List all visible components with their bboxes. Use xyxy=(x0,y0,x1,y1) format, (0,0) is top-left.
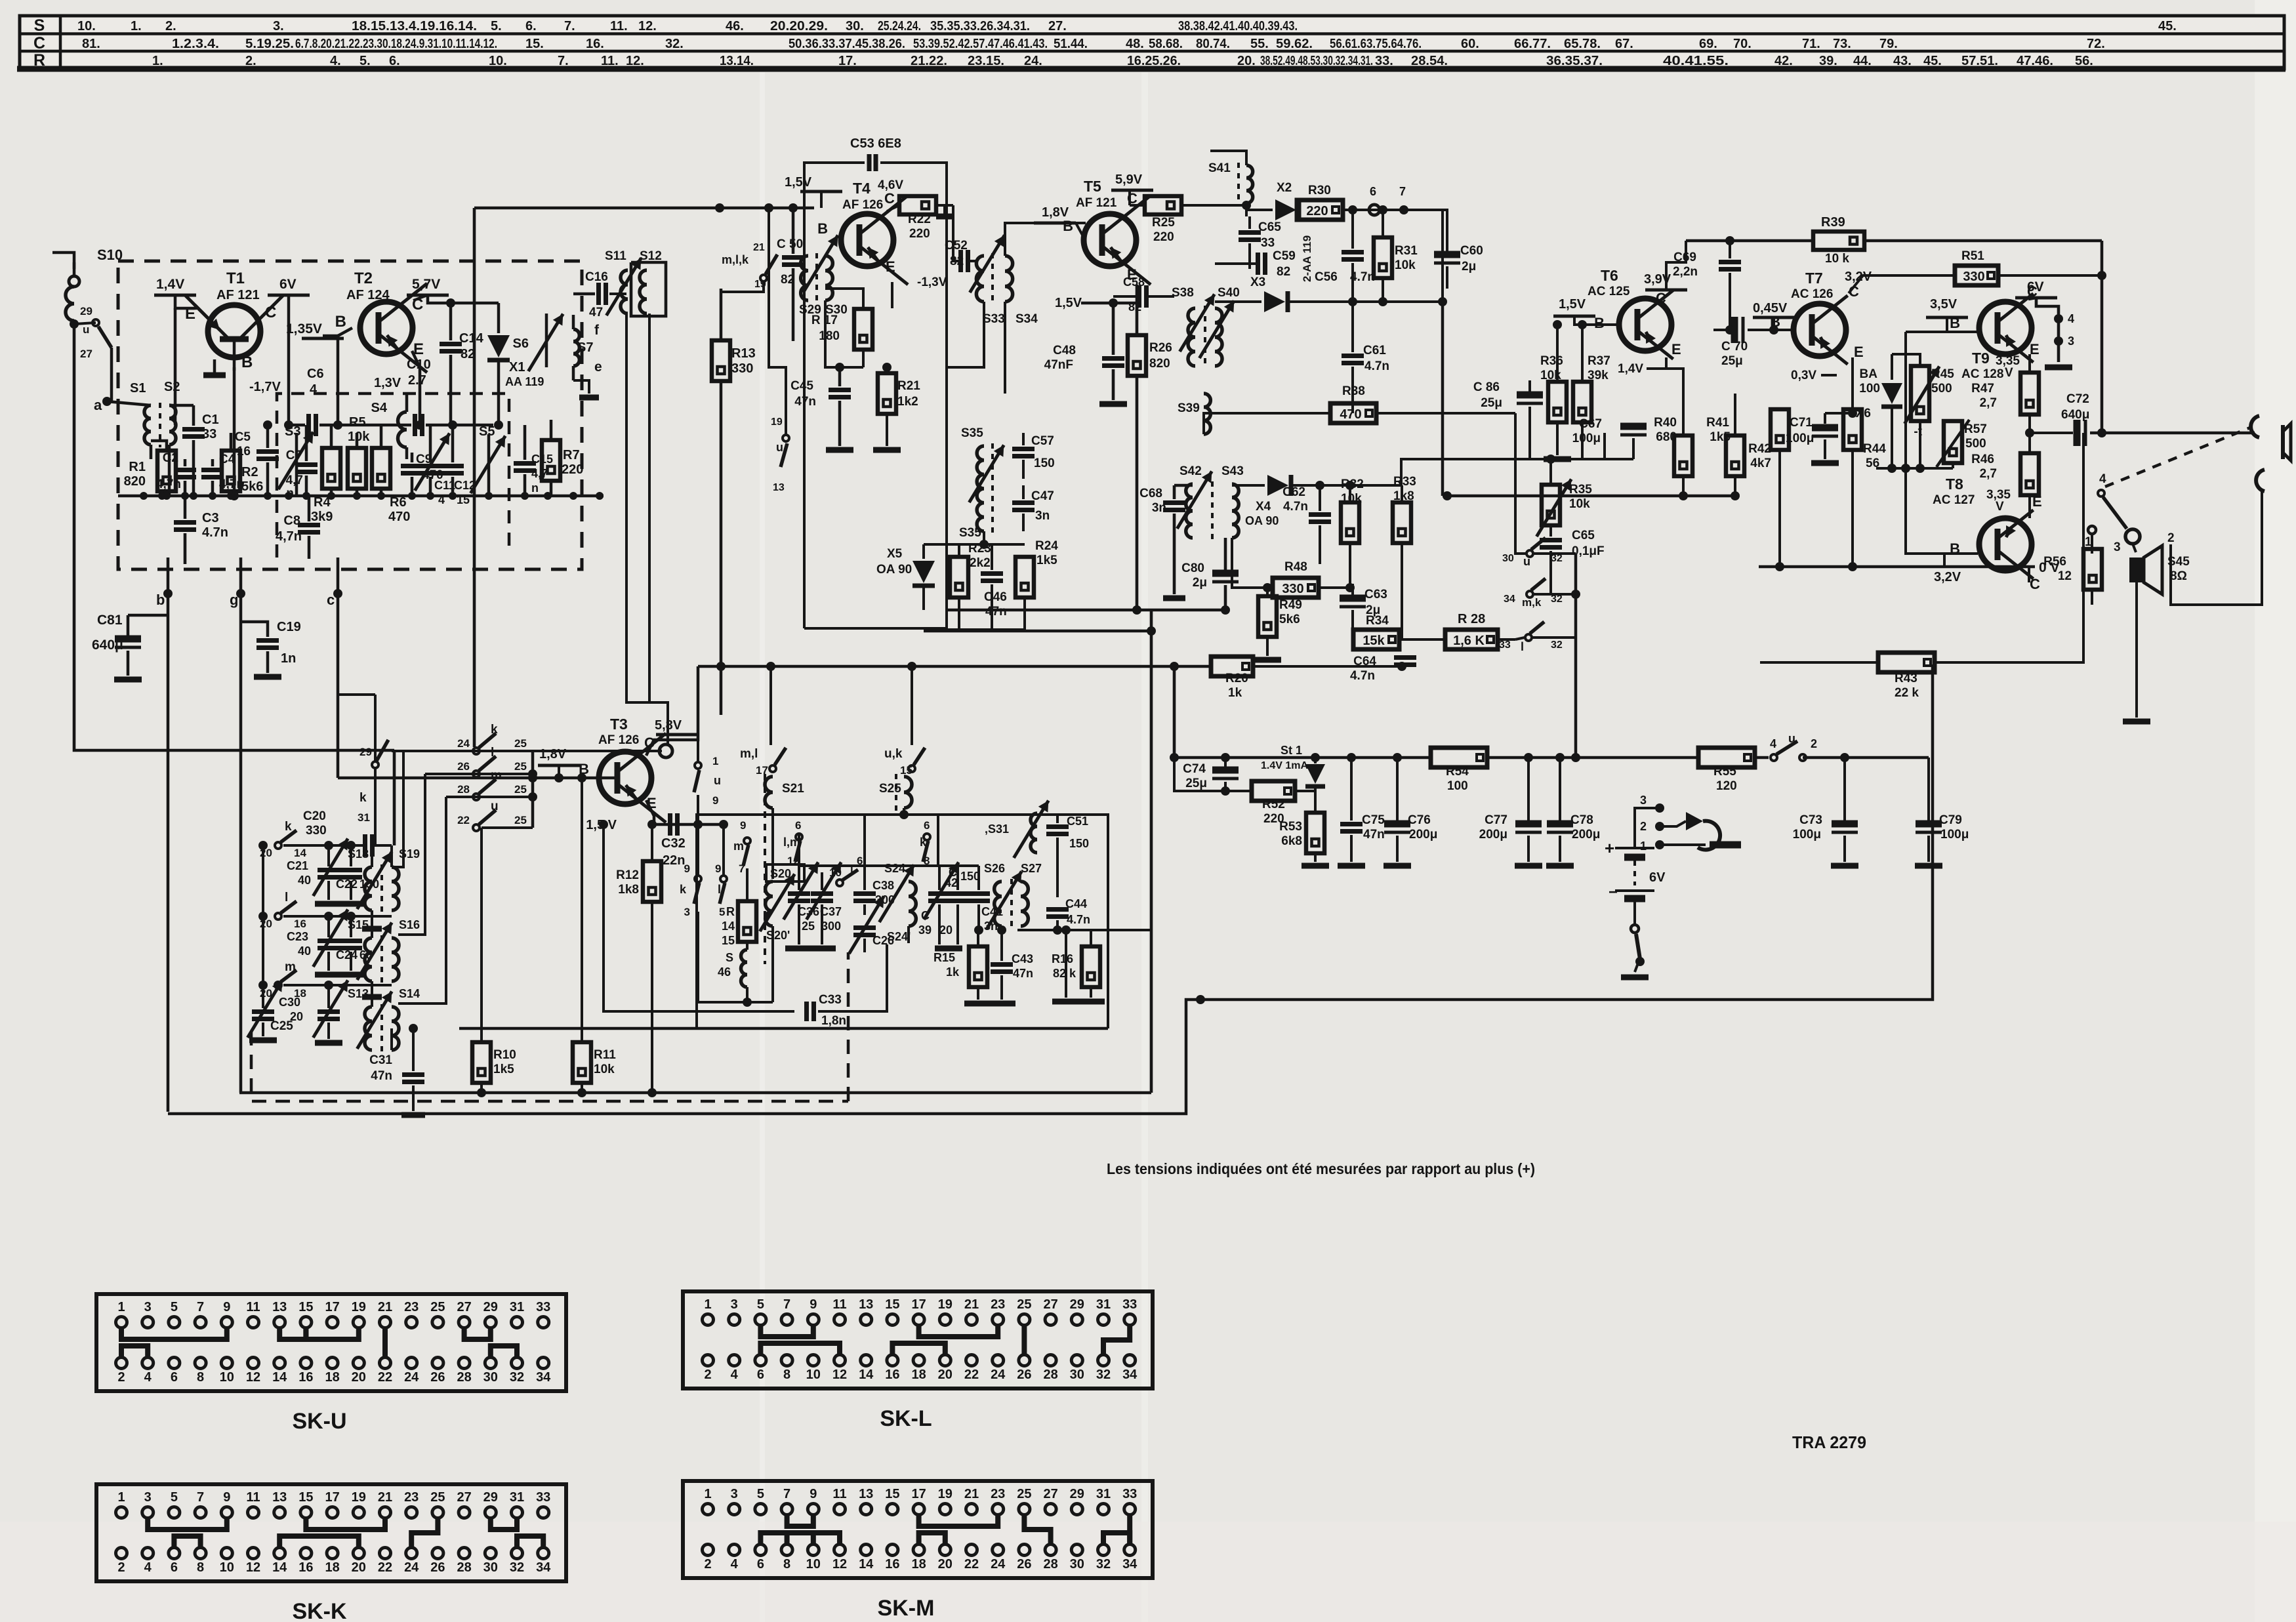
svg-text:S3: S3 xyxy=(285,424,300,439)
svg-text:k: k xyxy=(285,820,292,834)
svg-text:24: 24 xyxy=(457,737,470,750)
coil S33 xyxy=(976,256,984,302)
svg-text:47: 47 xyxy=(589,306,603,319)
svg-text:29: 29 xyxy=(483,1300,498,1314)
svg-text:6: 6 xyxy=(757,1557,764,1571)
svg-text:St 1: St 1 xyxy=(1281,744,1302,757)
svg-text:X1: X1 xyxy=(509,360,525,375)
svg-text:R52: R52 xyxy=(1262,798,1285,811)
svg-text:R4: R4 xyxy=(314,495,331,510)
resistor R30 xyxy=(1297,200,1343,220)
svg-text:B: B xyxy=(1770,314,1780,330)
svg-text:46: 46 xyxy=(718,965,731,979)
resistor R2 xyxy=(222,451,240,491)
svg-text:79.: 79. xyxy=(1879,37,1898,51)
svg-text:8: 8 xyxy=(197,1560,204,1575)
trimmer C37 xyxy=(811,891,833,896)
svg-text:21.22.: 21.22. xyxy=(911,54,947,68)
svg-text:17: 17 xyxy=(911,1487,926,1501)
svg-text:13: 13 xyxy=(272,1300,287,1314)
resistor R32 xyxy=(1341,502,1359,543)
svg-text:39k: 39k xyxy=(1588,369,1609,382)
svg-text:18: 18 xyxy=(325,1370,339,1385)
svg-text:-1,3V: -1,3V xyxy=(917,275,947,289)
svg-text:R: R xyxy=(33,51,45,70)
svg-text:5: 5 xyxy=(719,906,725,918)
svg-text:1.: 1. xyxy=(131,19,142,33)
svg-text:820: 820 xyxy=(1149,357,1170,371)
svg-text:S21: S21 xyxy=(782,782,804,796)
svg-text:5: 5 xyxy=(171,1300,178,1314)
svg-text:R2: R2 xyxy=(241,465,258,479)
svg-text:R33: R33 xyxy=(1393,475,1416,489)
svg-text:12: 12 xyxy=(832,1368,847,1382)
coil S1 xyxy=(144,405,151,445)
svg-text:4,7: 4,7 xyxy=(286,474,303,487)
svg-text:17: 17 xyxy=(911,1297,926,1312)
capacitor C7 xyxy=(295,462,318,467)
wire xyxy=(474,207,814,210)
svg-text:330: 330 xyxy=(1963,270,1984,284)
svg-text:C31: C31 xyxy=(369,1053,392,1067)
svg-text:S43: S43 xyxy=(1221,464,1244,478)
svg-text:R7: R7 xyxy=(563,448,580,462)
svg-text:10: 10 xyxy=(806,1368,821,1382)
wire xyxy=(174,308,177,425)
resistor R40 xyxy=(1674,436,1692,476)
svg-text:36.35.37.: 36.35.37. xyxy=(1546,54,1603,68)
resistor R37 xyxy=(1573,382,1591,422)
svg-text:20: 20 xyxy=(939,923,953,937)
svg-text:9: 9 xyxy=(810,1487,817,1501)
resistor R1 xyxy=(157,451,176,491)
svg-text:T5: T5 xyxy=(1084,178,1101,195)
svg-text:S35: S35 xyxy=(959,526,981,540)
svg-text:X2: X2 xyxy=(1277,181,1292,195)
svg-text:3: 3 xyxy=(731,1297,738,1312)
svg-text:m,l,k: m,l,k xyxy=(722,253,749,266)
svg-text:27.: 27. xyxy=(1048,19,1067,33)
svg-text:S25: S25 xyxy=(879,782,901,796)
svg-text:16: 16 xyxy=(237,445,251,458)
svg-text:SK-U: SK-U xyxy=(292,1409,346,1434)
svg-text:C 86: C 86 xyxy=(1473,380,1500,394)
charger jack xyxy=(1635,808,1660,848)
svg-text:30: 30 xyxy=(483,1560,498,1575)
svg-text:C: C xyxy=(2030,576,2040,592)
svg-text:AC 128: AC 128 xyxy=(1961,367,2003,381)
capacitor C56 xyxy=(1342,250,1364,254)
terminal 6 7 xyxy=(1369,205,1380,215)
coil S2 xyxy=(169,405,176,445)
base divider xyxy=(1604,325,1605,365)
resistor R7 xyxy=(542,440,560,481)
svg-text:4.: 4. xyxy=(330,54,341,68)
svg-text:16: 16 xyxy=(294,918,306,930)
svg-text:9: 9 xyxy=(712,794,718,807)
svg-text:1,4V: 1,4V xyxy=(156,277,184,292)
coil S42 xyxy=(1186,484,1193,538)
capacitor C1 xyxy=(182,427,205,432)
svg-text:58.68.: 58.68. xyxy=(1149,37,1183,51)
svg-text:20: 20 xyxy=(352,1370,366,1385)
svg-text:0,1μF: 0,1μF xyxy=(1572,544,1605,558)
svg-text:5k6: 5k6 xyxy=(241,479,263,494)
svg-text:1: 1 xyxy=(704,1297,711,1312)
svg-text:T7: T7 xyxy=(1805,270,1823,287)
svg-text:T8: T8 xyxy=(1946,476,1963,493)
transformer S21 xyxy=(765,777,773,808)
svg-text:11.: 11. xyxy=(610,19,628,33)
svg-text:2-AA 119: 2-AA 119 xyxy=(1301,235,1313,282)
svg-text:C1: C1 xyxy=(202,413,219,427)
wire xyxy=(1574,554,1578,758)
svg-text:330: 330 xyxy=(1282,582,1303,596)
svg-text:1,35V: 1,35V xyxy=(286,321,322,336)
svg-text:C5: C5 xyxy=(235,430,251,444)
svg-text:1,5V: 1,5V xyxy=(1559,297,1586,312)
svg-text:150: 150 xyxy=(960,870,980,883)
capacitor C52 xyxy=(958,250,963,272)
svg-text:C58: C58 xyxy=(1123,275,1145,289)
svg-text:3: 3 xyxy=(731,1487,738,1501)
svg-text:4: 4 xyxy=(144,1560,152,1575)
svg-text:4,6V: 4,6V xyxy=(878,178,903,192)
resistor R15 xyxy=(969,946,987,987)
svg-text:R15: R15 xyxy=(933,951,955,964)
svg-text:5.: 5. xyxy=(359,54,371,68)
svg-text:4: 4 xyxy=(731,1557,739,1571)
coil S39 xyxy=(1204,394,1210,434)
svg-text:10 k: 10 k xyxy=(1825,252,1849,266)
svg-text:C48: C48 xyxy=(1053,344,1076,357)
svg-text:TRA 2279: TRA 2279 xyxy=(1792,1432,1866,1452)
svg-text:25: 25 xyxy=(430,1300,445,1314)
svg-text:3,2V: 3,2V xyxy=(1934,570,1961,584)
svg-text:28.54.: 28.54. xyxy=(1411,54,1448,68)
svg-text:3.: 3. xyxy=(273,19,284,33)
svg-text:15: 15 xyxy=(457,493,470,506)
svg-text:S1: S1 xyxy=(130,381,146,395)
transistor T5 xyxy=(1084,214,1136,266)
svg-text:28: 28 xyxy=(457,1370,471,1385)
svg-text:l: l xyxy=(1521,640,1524,653)
svg-text:C47: C47 xyxy=(1031,489,1054,503)
svg-text:2: 2 xyxy=(117,1370,125,1385)
coil S10 xyxy=(66,287,74,321)
svg-text:C20: C20 xyxy=(303,809,326,823)
svg-text:S40: S40 xyxy=(1218,286,1240,300)
svg-text:82: 82 xyxy=(1277,265,1290,279)
svg-text:60.: 60. xyxy=(1461,37,1479,51)
svg-text:R24: R24 xyxy=(1035,539,1058,553)
svg-text:17: 17 xyxy=(325,1490,339,1505)
svg-text:10: 10 xyxy=(806,1557,821,1571)
svg-text:2: 2 xyxy=(704,1368,711,1382)
svg-text:1.2.3.4.: 1.2.3.4. xyxy=(172,37,219,51)
resistor R16 xyxy=(1082,946,1100,987)
svg-text:10k: 10k xyxy=(1395,258,1416,272)
capacitor C75 xyxy=(1340,822,1363,826)
svg-text:10: 10 xyxy=(829,866,842,879)
resistor R28 xyxy=(1445,630,1498,649)
transformer S25 xyxy=(904,777,912,808)
potentiometer R35 xyxy=(1542,485,1560,525)
svg-text:30.: 30. xyxy=(846,19,864,33)
svg-text:35.35.33.26.34.31.: 35.35.33.26.34.31. xyxy=(930,19,1030,33)
svg-text:C61: C61 xyxy=(1363,344,1386,357)
svg-text:S45: S45 xyxy=(2167,555,2190,569)
resistor R13 xyxy=(712,340,730,381)
inner dashed box xyxy=(277,394,509,558)
svg-text:67.: 67. xyxy=(1615,37,1633,51)
svg-text:470: 470 xyxy=(1340,407,1361,422)
svg-text:6: 6 xyxy=(1370,185,1376,198)
capacitor C79 xyxy=(1916,821,1942,828)
svg-text:15k: 15k xyxy=(1363,634,1385,648)
svg-text:10k: 10k xyxy=(1569,497,1590,511)
svg-text:R37: R37 xyxy=(1588,354,1610,368)
capacitor C45 xyxy=(829,388,851,392)
svg-text:S24': S24' xyxy=(887,930,911,943)
capacitor C65b xyxy=(1540,538,1562,542)
transistor T8 xyxy=(1979,518,2032,571)
svg-text:C: C xyxy=(921,909,930,922)
svg-text:C: C xyxy=(1656,290,1666,306)
capacitor C71 xyxy=(1812,424,1838,432)
svg-text:22 k: 22 k xyxy=(1895,686,1919,700)
svg-text:20.20.29.: 20.20.29. xyxy=(770,19,828,33)
svg-text:34: 34 xyxy=(1122,1557,1138,1571)
capacitor C66b xyxy=(1517,392,1543,399)
svg-text:u: u xyxy=(714,774,721,787)
svg-text:C32: C32 xyxy=(661,836,686,851)
svg-text:R56: R56 xyxy=(2043,555,2066,569)
svg-text:19: 19 xyxy=(352,1300,366,1314)
svg-text:16.25.26.: 16.25.26. xyxy=(1127,54,1181,68)
wire supply xyxy=(1173,666,1176,758)
svg-text:25: 25 xyxy=(1017,1297,1031,1312)
coil S11 xyxy=(621,270,628,314)
svg-text:B: B xyxy=(1950,315,1960,331)
svg-text:73.: 73. xyxy=(1833,37,1851,51)
svg-text:15: 15 xyxy=(885,1297,899,1312)
svg-text:V: V xyxy=(2005,366,2013,380)
resistor R10 xyxy=(472,1042,491,1083)
svg-text:S38: S38 xyxy=(1172,286,1194,300)
svg-text:1: 1 xyxy=(704,1487,711,1501)
svg-text:16: 16 xyxy=(298,1370,313,1385)
svg-text:29: 29 xyxy=(80,305,92,317)
svg-text:R42: R42 xyxy=(1748,442,1771,456)
svg-text:R21: R21 xyxy=(897,379,920,393)
diode X6 BA100 xyxy=(1881,383,1902,404)
capacitor C64 xyxy=(1394,655,1416,660)
svg-text:13.14.: 13.14. xyxy=(720,54,754,68)
capacitor C4 xyxy=(201,468,224,472)
connector block SK-K xyxy=(96,1484,566,1622)
resistor R45 xyxy=(1911,366,1929,421)
svg-text:1k5: 1k5 xyxy=(1710,430,1731,444)
svg-text:51.44.: 51.44. xyxy=(1054,37,1088,51)
svg-text:470: 470 xyxy=(388,510,410,524)
svg-text:22: 22 xyxy=(964,1368,979,1382)
svg-text:34: 34 xyxy=(536,1560,551,1575)
svg-text:C 70: C 70 xyxy=(1721,340,1748,354)
svg-text:500: 500 xyxy=(1931,382,1952,395)
svg-text:39.: 39. xyxy=(1819,54,1837,68)
svg-text:S5: S5 xyxy=(479,424,495,439)
svg-text:47n: 47n xyxy=(1363,828,1385,841)
svg-text:S18: S18 xyxy=(348,847,369,861)
svg-text:220: 220 xyxy=(1306,204,1328,218)
svg-text:150: 150 xyxy=(1034,456,1055,470)
resistor R48 xyxy=(1273,578,1319,598)
transistor T1 xyxy=(208,305,260,357)
capacitor C2 xyxy=(174,468,196,472)
svg-text:OA 90: OA 90 xyxy=(1245,514,1279,527)
node b xyxy=(167,558,170,1112)
capacitor C6 xyxy=(306,414,311,436)
svg-text:7: 7 xyxy=(197,1300,204,1314)
svg-text:R40: R40 xyxy=(1654,416,1677,430)
svg-text:S20': S20' xyxy=(766,929,790,942)
feedback line C33 xyxy=(604,824,794,1011)
svg-text:220: 220 xyxy=(1153,230,1174,244)
svg-text:5,9V: 5,9V xyxy=(1115,172,1143,187)
transistor T3 xyxy=(599,752,651,804)
svg-text:2μ: 2μ xyxy=(1462,260,1476,274)
capacitor C8 xyxy=(298,523,320,527)
svg-text:R 28: R 28 xyxy=(1458,612,1485,626)
svg-text:330: 330 xyxy=(731,361,753,376)
svg-text:g: g xyxy=(230,592,238,608)
svg-text:25μ: 25μ xyxy=(1185,777,1207,790)
svg-text:500: 500 xyxy=(1965,437,1986,451)
svg-text:R51: R51 xyxy=(1961,249,1984,263)
svg-text:10k: 10k xyxy=(594,1063,615,1076)
svg-text:R10: R10 xyxy=(493,1048,516,1062)
svg-text:R1: R1 xyxy=(129,460,146,474)
svg-text:25: 25 xyxy=(514,737,527,750)
parts index table xyxy=(17,16,2286,70)
wire xyxy=(1150,610,1153,1093)
svg-text:33: 33 xyxy=(1261,236,1275,250)
svg-text:14: 14 xyxy=(272,1560,287,1575)
svg-text:R12: R12 xyxy=(616,868,639,882)
svg-text:C75: C75 xyxy=(1362,813,1385,827)
svg-text:C44: C44 xyxy=(1065,897,1087,910)
AGC line xyxy=(1443,302,1515,413)
svg-text:k: k xyxy=(359,791,367,805)
svg-text:29: 29 xyxy=(1070,1487,1084,1501)
svg-text:R5: R5 xyxy=(349,415,366,430)
resistor R24 xyxy=(1015,557,1034,598)
svg-text:C69: C69 xyxy=(1673,251,1696,264)
svg-text:2: 2 xyxy=(2167,531,2175,545)
capacitor C31 xyxy=(402,1072,424,1077)
capacitor C42 xyxy=(947,891,969,896)
svg-text:C46: C46 xyxy=(984,590,1007,604)
svg-text:22: 22 xyxy=(457,814,470,826)
svg-text:S11: S11 xyxy=(605,249,626,263)
resistor R4 xyxy=(322,448,340,489)
svg-text:45.: 45. xyxy=(1923,54,1942,68)
svg-text:32: 32 xyxy=(1096,1368,1111,1382)
svg-text:C8: C8 xyxy=(283,514,300,528)
svg-text:23: 23 xyxy=(404,1300,419,1314)
svg-text:34: 34 xyxy=(1504,594,1515,605)
svg-text:20.: 20. xyxy=(1237,54,1256,68)
svg-text:C59: C59 xyxy=(1273,249,1296,263)
resistor R33 xyxy=(1393,502,1411,543)
capacitor C73 xyxy=(1832,821,1858,828)
svg-text:2μ: 2μ xyxy=(1193,576,1207,590)
supply line xyxy=(698,665,1211,668)
svg-text:AA 119: AA 119 xyxy=(505,375,544,388)
svg-text:12: 12 xyxy=(832,1557,847,1571)
svg-text:C: C xyxy=(33,34,45,52)
resistor R41 xyxy=(1726,436,1744,476)
svg-text:1,8V: 1,8V xyxy=(539,747,567,761)
svg-text:S35: S35 xyxy=(961,426,983,440)
svg-text:C30: C30 xyxy=(279,996,300,1009)
svg-text:12: 12 xyxy=(246,1560,260,1575)
resistor R34 xyxy=(1353,630,1399,649)
svg-text:17: 17 xyxy=(325,1300,339,1314)
svg-text:69.: 69. xyxy=(1699,37,1717,51)
coil S30 xyxy=(825,256,832,300)
coil S34 xyxy=(1005,256,1013,302)
capacitor C19 xyxy=(256,638,279,643)
svg-text:C78: C78 xyxy=(1570,813,1593,827)
connector block SK-U xyxy=(96,1294,566,1434)
svg-text:24.: 24. xyxy=(1024,54,1042,68)
svg-text:AC 126: AC 126 xyxy=(1791,287,1833,301)
svg-text:4.7n: 4.7n xyxy=(1350,669,1375,683)
svg-text:31: 31 xyxy=(1096,1487,1111,1501)
svg-text:C56: C56 xyxy=(1315,270,1338,284)
svg-text:C71: C71 xyxy=(1790,416,1813,430)
svg-text:55.: 55. xyxy=(1250,37,1269,51)
svg-text:1,6 K: 1,6 K xyxy=(1453,634,1485,648)
svg-text:C: C xyxy=(265,304,276,321)
0V line xyxy=(1759,565,2035,569)
svg-text:33: 33 xyxy=(536,1300,550,1314)
svg-text:23.15.: 23.15. xyxy=(968,54,1004,68)
capacitor C62 xyxy=(1309,512,1331,517)
svg-text:C6: C6 xyxy=(307,367,324,381)
svg-text:33: 33 xyxy=(202,427,216,441)
svg-text:8: 8 xyxy=(197,1370,204,1385)
svg-text:1,3V: 1,3V xyxy=(374,376,401,390)
svg-text:25μ: 25μ xyxy=(1481,396,1502,410)
svg-text:10k: 10k xyxy=(1341,492,1362,506)
svg-text:12.: 12. xyxy=(626,54,644,68)
svg-text:u: u xyxy=(776,441,783,454)
svg-text:4: 4 xyxy=(144,1370,152,1385)
svg-text:30: 30 xyxy=(1502,553,1514,564)
svg-text:C65: C65 xyxy=(1572,529,1595,542)
antenna input xyxy=(52,253,74,276)
svg-text:E: E xyxy=(2030,341,2040,357)
resistor R25 xyxy=(1145,196,1181,214)
svg-text:C80: C80 xyxy=(1181,561,1204,575)
resistor R36 xyxy=(1548,382,1567,422)
svg-text:56.61.63.75.64.76.: 56.61.63.75.64.76. xyxy=(1330,37,1422,51)
svg-text:C65: C65 xyxy=(1258,220,1281,234)
svg-text:29: 29 xyxy=(483,1490,498,1505)
